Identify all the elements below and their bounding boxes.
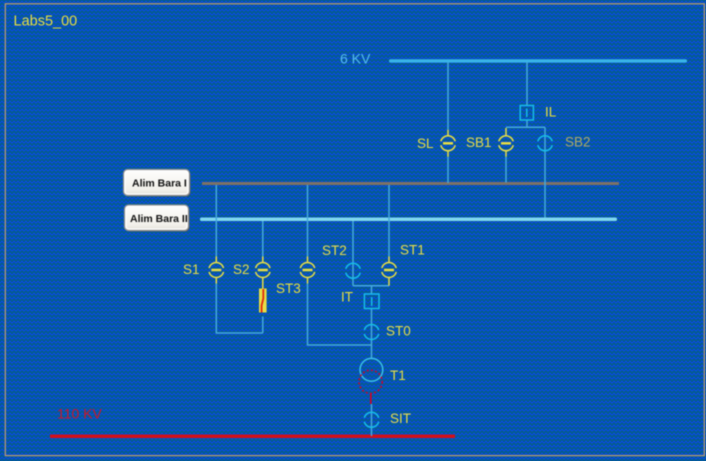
- svg-text:S1: S1: [183, 262, 200, 277]
- svg-text:6 KV: 6 KV: [340, 51, 371, 67]
- svg-text:Alim Bara I: Alim Bara I: [132, 178, 187, 190]
- svg-text:Labs5_00: Labs5_00: [14, 14, 78, 30]
- svg-text:ST2: ST2: [322, 243, 347, 258]
- svg-text:IT: IT: [341, 290, 353, 305]
- svg-text:S2: S2: [233, 262, 250, 277]
- svg-text:IL: IL: [545, 105, 557, 120]
- svg-text:ST1: ST1: [400, 243, 425, 258]
- svg-text:ST0: ST0: [386, 324, 411, 339]
- svg-text:SB2: SB2: [565, 135, 591, 150]
- svg-text:SL: SL: [417, 136, 434, 151]
- svg-text:SB1: SB1: [466, 135, 492, 150]
- svg-text:ST3: ST3: [276, 281, 301, 296]
- svg-text:T1: T1: [390, 368, 406, 383]
- svg-text:SIT: SIT: [390, 411, 411, 426]
- svg-text:110 KV: 110 KV: [57, 406, 103, 422]
- svg-text:Alim Bara II: Alim Bara II: [130, 213, 188, 225]
